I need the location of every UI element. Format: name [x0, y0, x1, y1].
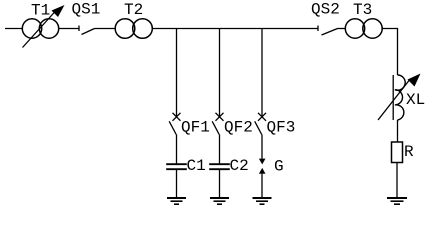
ground under R	[387, 198, 407, 204]
transformer T3	[345, 19, 382, 38]
wire: left lead into T1	[5, 28, 23, 30]
svg-text:QS1: QS1	[72, 1, 101, 19]
capacitor C2	[209, 164, 230, 197]
transformer T1	[22, 5, 64, 48]
capacitor C1	[166, 164, 187, 197]
svg-text:C2: C2	[230, 157, 249, 175]
breaker QF3	[255, 113, 266, 159]
transformer T2	[115, 19, 152, 39]
wire: main bus	[152, 28, 318, 30]
spark gap G	[259, 159, 266, 198]
wire: QS2 to T3	[338, 28, 346, 30]
svg-text:T2: T2	[124, 1, 143, 19]
svg-text:QF1: QF1	[181, 119, 210, 137]
ground under C1	[167, 198, 186, 204]
wire: XL to R	[397, 120, 399, 142]
svg-text:G: G	[274, 158, 284, 176]
disconnector QS1	[79, 26, 95, 35]
wire: T1 to QS1	[58, 28, 79, 30]
svg-text:T1: T1	[31, 2, 50, 20]
svg-text:C1: C1	[187, 157, 206, 175]
ground under C2	[210, 198, 229, 204]
svg-text:T3: T3	[353, 1, 372, 19]
disconnector QS2	[318, 26, 338, 36]
wire: drop to QF1	[176, 29, 178, 117]
breaker QF1	[169, 113, 180, 164]
svg-text:QS2: QS2	[311, 1, 340, 19]
wire: R to ground	[396, 163, 398, 198]
ground under G	[253, 198, 272, 204]
svg-text:QF2: QF2	[224, 119, 253, 137]
wire: drop to QF2	[219, 29, 221, 117]
wire: T3 to right corner, down to XL	[382, 29, 397, 76]
resistor R	[392, 142, 403, 163]
wire: QS1 to T2	[95, 28, 116, 30]
svg-text:R: R	[404, 143, 414, 161]
reactor XL	[378, 74, 421, 121]
svg-text:XL: XL	[406, 91, 425, 109]
wire: drop to QF3	[261, 29, 263, 117]
svg-text:QF3: QF3	[267, 119, 296, 137]
breaker QF2	[212, 113, 223, 164]
